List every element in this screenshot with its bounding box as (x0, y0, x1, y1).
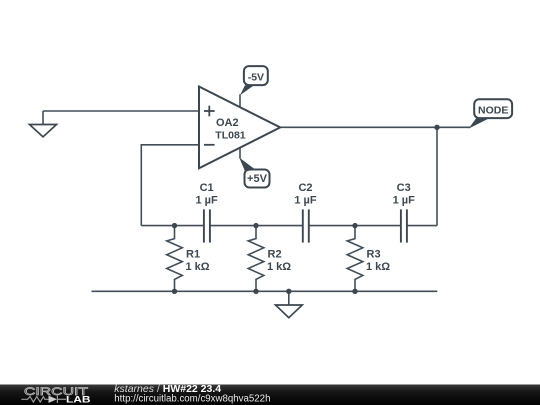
svg-text:OA2: OA2 (216, 117, 239, 129)
svg-text:1 kΩ: 1 kΩ (267, 261, 291, 273)
svg-text:R3: R3 (367, 249, 381, 261)
svg-text:1 µF: 1 µF (195, 194, 218, 206)
svg-text:+5V: +5V (247, 173, 268, 185)
svg-text:C1: C1 (200, 182, 214, 194)
svg-text:1 µF: 1 µF (393, 194, 416, 206)
svg-text:1 kΩ: 1 kΩ (366, 261, 390, 273)
svg-text:R2: R2 (268, 249, 282, 261)
svg-text:1 µF: 1 µF (294, 194, 317, 206)
svg-text:-5V: -5V (248, 71, 264, 83)
svg-text:http://circuitlab.com/c9xw8qhv: http://circuitlab.com/c9xw8qhva522h (114, 393, 270, 404)
svg-text:1 kΩ: 1 kΩ (186, 261, 210, 273)
svg-text:TL081: TL081 (215, 130, 246, 142)
svg-text:LAB: LAB (66, 395, 91, 405)
svg-text:NODE: NODE (478, 104, 508, 116)
svg-text:C2: C2 (298, 182, 312, 194)
svg-text:C3: C3 (397, 182, 411, 194)
svg-text:R1: R1 (186, 249, 200, 261)
